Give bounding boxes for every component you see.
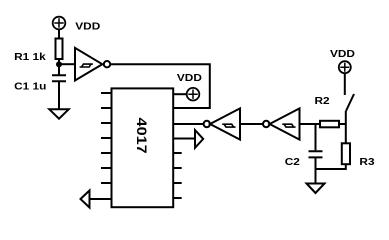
pin right 6	[173, 167, 182, 169]
wire switch to node	[345, 111, 347, 143]
pin left 1	[101, 92, 112, 94]
wire IC power pin to VDD	[173, 93, 187, 95]
IC U2 4017 body	[112, 88, 174, 207]
pin left 7	[101, 182, 112, 184]
svg-text:R2: R2	[315, 96, 330, 107]
wire U4 input to RC node	[300, 123, 321, 125]
wire R3 bottom to ground rail	[316, 164, 346, 169]
arrow output (open, pointing left)	[81, 191, 90, 208]
wire output pin (bottom-left)	[90, 198, 112, 200]
wire VDD to switch	[344, 73, 346, 95]
wire IC reset pin to inverter chain	[173, 123, 204, 125]
junction node R1/C1/input	[56, 61, 62, 67]
bubble U4 output	[263, 121, 269, 127]
pin right 7	[173, 182, 182, 184]
power VDD (switch supply)	[339, 61, 351, 73]
inverter U4 (schmitt trigger, left-pointing)	[270, 108, 300, 139]
svg-text:R3: R3	[359, 157, 374, 168]
inverter U3 (schmitt trigger, left-pointing)	[210, 108, 240, 139]
wire IC carry pin to marker	[173, 138, 195, 140]
resistor R1	[56, 39, 63, 60]
svg-text:R1 1k: R1 1k	[14, 51, 46, 62]
inverter U1 (schmitt trigger, right-pointing)	[75, 48, 102, 81]
svg-text:C1 1u: C1 1u	[14, 81, 46, 92]
wire C1 to ground	[58, 81, 60, 109]
bubble U1 output	[104, 61, 110, 67]
wire R1 to C1	[58, 59, 60, 75]
hysteresis mark U3	[222, 124, 235, 127]
power VDD (IC supply)	[187, 88, 200, 101]
resistor R3	[342, 143, 350, 164]
svg-text:VDD: VDD	[177, 73, 202, 84]
switch S1 blade (open)	[346, 94, 354, 111]
pin left 3	[101, 122, 112, 124]
wire U3 input to U4 output	[240, 123, 263, 125]
pin left 6	[101, 167, 112, 169]
svg-text:VDD: VDD	[330, 49, 355, 60]
power VDD (top-left supply)	[53, 17, 66, 30]
ground (right)	[307, 184, 325, 194]
ground (left)	[49, 109, 68, 118]
wire junction to inverter input	[59, 63, 75, 65]
svg-text:VDD: VDD	[75, 21, 100, 32]
pin right 8	[173, 197, 182, 199]
svg-text:4017: 4017	[134, 118, 150, 154]
marker open triangle (carry out)	[195, 130, 203, 148]
svg-text:C2: C2	[285, 156, 300, 167]
hysteresis mark U4	[282, 124, 295, 127]
capacitor C2	[309, 151, 323, 157]
pin left 4	[101, 137, 112, 139]
wire U1 output to IC pin (clock)	[110, 64, 210, 108]
pin right 5	[173, 152, 182, 154]
pin left 2	[101, 107, 112, 109]
wire C2 to ground	[315, 157, 317, 183]
bubble U3 output	[204, 121, 210, 127]
wire VDD to R1	[58, 29, 60, 38]
capacitor C1	[52, 75, 66, 81]
wire RC node to C2	[315, 124, 317, 150]
hysteresis mark U1	[80, 64, 93, 67]
pin left 5	[101, 152, 112, 154]
resistor R2	[320, 121, 339, 128]
wire R2 to switch node	[339, 123, 346, 125]
